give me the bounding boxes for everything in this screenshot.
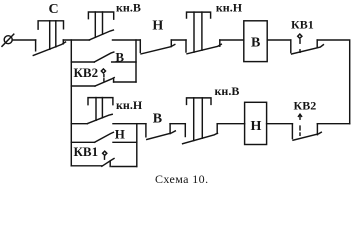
- svg-text:Схема 10.: Схема 10.: [155, 172, 208, 186]
- svg-text:кн.Н: кн.Н: [216, 1, 243, 15]
- svg-text:Н: Н: [115, 127, 125, 142]
- svg-text:кн.В: кн.В: [116, 1, 141, 15]
- svg-text:В: В: [251, 36, 260, 51]
- svg-text:С: С: [49, 2, 59, 17]
- svg-text:кн.Н: кн.Н: [116, 98, 143, 112]
- svg-text:кн.В: кн.В: [215, 84, 240, 98]
- svg-text:В: В: [153, 112, 162, 127]
- svg-text:Н: Н: [251, 119, 262, 134]
- svg-text:КВ1: КВ1: [291, 18, 314, 32]
- svg-text:КВ1: КВ1: [74, 144, 99, 159]
- svg-text:В: В: [115, 49, 124, 64]
- svg-text:Н: Н: [152, 18, 163, 33]
- svg-text:КВ2: КВ2: [294, 98, 317, 112]
- svg-text:КВ2: КВ2: [74, 65, 99, 80]
